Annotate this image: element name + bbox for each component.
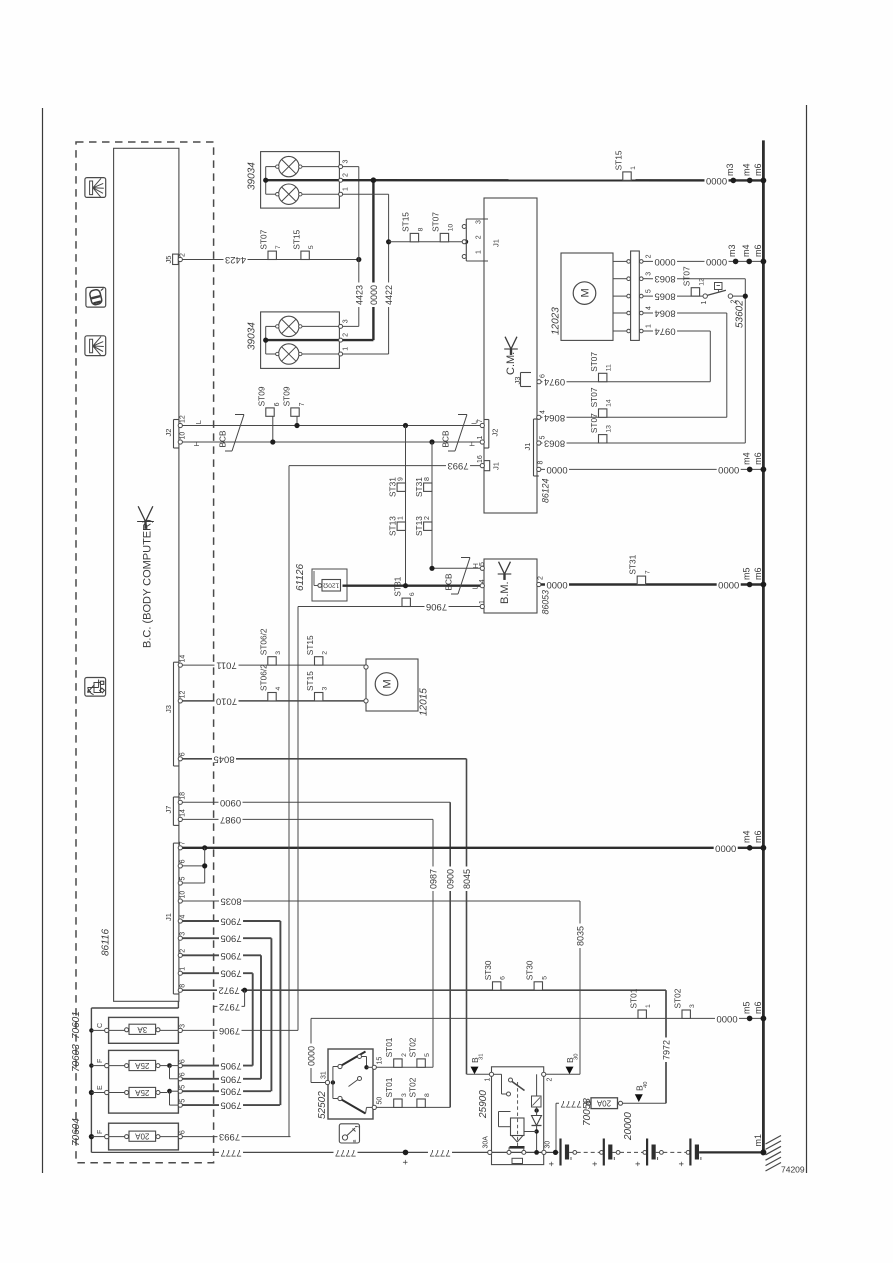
fusebox 70604: [109, 1123, 179, 1150]
pin 4 J1 C.M.: [537, 415, 541, 419]
svg-text:12: 12: [180, 415, 187, 423]
wire 0974 motor side: [649, 330, 711, 332]
svg-text:1: 1: [476, 250, 483, 254]
svg-text:B.C. (BODY COMPUTER): B.C. (BODY COMPUTER): [142, 519, 154, 648]
svg-text:14: 14: [606, 399, 613, 407]
pin 1 cluster b: [339, 352, 343, 356]
svg-text:8045: 8045: [213, 753, 234, 764]
wires 7905 J1/4..1: [182, 920, 280, 922]
svg-text:50: 50: [377, 1097, 384, 1105]
svg-text:F: F: [97, 1130, 104, 1134]
svg-text:70603: 70603: [71, 1044, 82, 1072]
icon low-beam 1: [85, 178, 106, 198]
pin 31 52502: [311, 1082, 326, 1084]
svg-text:61126: 61126: [295, 563, 306, 591]
pin 1 J1top: [462, 255, 466, 259]
svg-text:8: 8: [424, 477, 431, 481]
svg-text:3: 3: [646, 272, 653, 276]
svg-text:10: 10: [180, 432, 187, 440]
pin 5 J1: [178, 881, 182, 885]
svg-text:L: L: [194, 420, 203, 424]
pin 6 J3: [178, 757, 182, 761]
svg-text:0987: 0987: [429, 869, 439, 889]
ground m1: [760, 1149, 766, 1155]
svg-text:7905: 7905: [220, 968, 241, 979]
svg-text:13: 13: [606, 425, 613, 433]
svg-text:0000: 0000: [718, 579, 739, 590]
wire 0000 J1/7 ground: [182, 847, 763, 849]
ST09 pin6 tap: [266, 408, 274, 416]
wire 0987 switch side: [376, 1066, 433, 1068]
ST01 pin3: [394, 1099, 402, 1107]
svg-text:m4: m4: [741, 244, 751, 257]
svg-text:ST07: ST07: [589, 413, 599, 433]
icon telltale 2: [86, 287, 106, 307]
pin 6 70604: [178, 1135, 182, 1139]
svg-text:10: 10: [447, 224, 454, 232]
svg-text:+: +: [547, 1161, 557, 1166]
pin 5 B.M.: [480, 566, 484, 570]
pin 12015 a: [364, 665, 368, 669]
connector J5 (B.C.): [173, 254, 179, 264]
svg-text:1: 1: [398, 516, 405, 520]
svg-text:4: 4: [180, 915, 187, 919]
ground m6 lamps: [761, 178, 767, 184]
svg-text:6: 6: [180, 1059, 187, 1063]
pin 8 J1: [178, 988, 182, 992]
svg-text:ST07: ST07: [589, 387, 599, 407]
battery cell 1: [559, 1139, 561, 1166]
svg-text:16: 16: [477, 455, 484, 463]
svg-text:H: H: [192, 441, 201, 446]
svg-text:30A: 30A: [483, 1136, 490, 1149]
svg-text:5: 5: [479, 562, 486, 566]
ST31 pin6 on 7906: [402, 598, 410, 606]
ST07 pin7 on 4423: [268, 251, 276, 259]
svg-text:0000: 0000: [369, 285, 379, 305]
connector J7 (B.C.): [172, 797, 174, 825]
svg-text:7993: 7993: [219, 1131, 240, 1142]
svg-text:m6: m6: [753, 830, 763, 843]
svg-text:6: 6: [500, 976, 507, 980]
motor 12023 box: [561, 253, 613, 340]
svg-text:8: 8: [180, 984, 187, 988]
svg-text:2: 2: [476, 235, 483, 239]
svg-text:70601: 70601: [71, 1011, 82, 1039]
svg-text:39034: 39034: [247, 322, 258, 350]
wire 8064 vertical: [726, 313, 728, 417]
svg-text:86053: 86053: [541, 590, 551, 615]
wire 0974 CM side: [541, 381, 710, 383]
svg-text:ST09: ST09: [281, 386, 291, 406]
svg-text:m1: m1: [753, 1134, 763, 1147]
svg-text:ST13: ST13: [388, 516, 398, 536]
svg-text:L: L: [470, 420, 479, 424]
pin 1 relay: [489, 1072, 493, 1076]
svg-text:8063: 8063: [544, 438, 565, 449]
svg-text:0000: 0000: [706, 256, 727, 267]
pin 2 J5: [178, 257, 182, 261]
pin F 70604: [105, 1135, 109, 1139]
svg-text:J1: J1: [523, 443, 532, 451]
wire 4422: [343, 193, 389, 195]
svg-text:J1: J1: [492, 462, 501, 470]
pin 2 cluster b: [339, 338, 343, 342]
svg-text:7972: 7972: [219, 1001, 240, 1012]
lamp b1: [279, 316, 299, 336]
ST15 pin3 on 7010: [315, 693, 323, 701]
fuse 70058 20A: [619, 1101, 623, 1105]
ST31 pin8: [424, 483, 432, 491]
junction 4423/vertical: [356, 257, 361, 262]
motor connector strip: [631, 251, 640, 340]
fusebox 70603: [109, 1050, 179, 1113]
wire 8063 vertical: [744, 279, 746, 443]
svg-text:m5: m5: [741, 567, 751, 580]
ground m3 motor: [733, 259, 739, 265]
svg-text:B.M.: B.M.: [499, 581, 511, 604]
svg-text:5: 5: [646, 289, 653, 293]
svg-text:+: +: [401, 1159, 412, 1165]
battery cell 2: [603, 1139, 605, 1166]
wire 4423 vertical: [343, 166, 359, 168]
wire 7010 J3/12: [182, 700, 366, 702]
svg-text:H: H: [468, 441, 477, 446]
connector J2 (C.M.): [488, 420, 490, 449]
svg-text:1: 1: [343, 347, 350, 351]
wire B31 to relay pin1: [467, 1073, 492, 1075]
wire 7777 fuse side: [556, 1102, 587, 1104]
ST15 pin8 on 4422: [410, 233, 418, 241]
wire 7993: [289, 465, 480, 467]
pin 2 J1: [178, 953, 182, 957]
svg-text:2: 2: [424, 516, 431, 520]
svg-text:ST02: ST02: [407, 1077, 417, 1097]
svg-text:0000: 0000: [716, 1013, 737, 1024]
wire 4423 J5/2: [182, 259, 358, 261]
svg-text:ST09: ST09: [256, 386, 266, 406]
wire 7972 J1/8: [182, 989, 666, 991]
wire BCB L to B.M.: [343, 585, 483, 587]
svg-text:18: 18: [180, 792, 187, 800]
svg-text:2: 2: [322, 651, 329, 655]
svg-text:3: 3: [343, 319, 350, 323]
pin F 70603a: [105, 1064, 109, 1068]
lamp b2: [279, 344, 299, 364]
svg-text:12023: 12023: [551, 307, 562, 335]
svg-text:m3: m3: [725, 163, 735, 176]
svg-text:m4: m4: [741, 452, 751, 465]
pin 10 J1: [178, 899, 182, 903]
pin 14 J7: [178, 817, 182, 821]
wire 8065 motor side: [649, 295, 704, 297]
junction 4422 branch: [386, 239, 391, 244]
wire 8064 motor side: [649, 312, 727, 314]
svg-text:2: 2: [180, 253, 187, 257]
svg-text:8: 8: [538, 461, 545, 465]
fuse 20A: [129, 1131, 156, 1141]
svg-text:12: 12: [180, 691, 187, 699]
ST13 pin1: [397, 522, 405, 530]
svg-text:ST30: ST30: [525, 960, 535, 980]
svg-text:m6: m6: [753, 163, 763, 176]
ground m6 C.M.: [761, 467, 767, 473]
wire BCB H to B.M.: [432, 567, 480, 569]
svg-text:3: 3: [180, 1024, 187, 1028]
svg-text:3: 3: [689, 1004, 696, 1008]
svg-text:70604: 70604: [71, 1118, 82, 1146]
cluster a internal wires: [266, 166, 276, 168]
pin 2 B.M.: [537, 582, 541, 586]
wire 8064 CM side: [541, 416, 727, 418]
svg-text:7906: 7906: [219, 1025, 240, 1036]
svg-text:4423: 4423: [354, 285, 364, 305]
svg-text:m3: m3: [727, 244, 737, 257]
ST07 pin12 on 8065: [691, 288, 699, 296]
pin 30A relay: [488, 1150, 492, 1154]
svg-text:15: 15: [377, 1057, 384, 1065]
svg-text:0000: 0000: [654, 256, 675, 267]
svg-text:86116: 86116: [101, 928, 112, 956]
svg-text:J1: J1: [492, 239, 501, 247]
key icon 52502: [339, 1124, 359, 1143]
ST15 pin2 on 7011: [315, 657, 323, 665]
svg-text:30: 30: [545, 1141, 552, 1149]
pin 10 J2: [178, 440, 182, 444]
svg-text:8063: 8063: [654, 273, 675, 284]
wire 0000 B.M. ground: [541, 583, 763, 585]
svg-text:86124: 86124: [541, 478, 551, 503]
wire 8035 J1/10: [182, 900, 580, 902]
pin 4 B.M.: [480, 584, 484, 588]
svg-text:2: 2: [343, 173, 350, 177]
chassis ground hatch: [766, 1136, 782, 1145]
ground m4 lamps: [747, 178, 753, 184]
svg-text:ST02: ST02: [407, 1037, 417, 1057]
rail through relay: [546, 1151, 559, 1153]
svg-text:0987: 0987: [220, 814, 241, 825]
ground m6 52502: [761, 1016, 767, 1022]
svg-text:ST01: ST01: [384, 1037, 394, 1057]
pin 3 J1top: [462, 225, 466, 229]
pin 3 cluster b: [339, 324, 343, 328]
svg-text:+: +: [633, 1161, 643, 1166]
ST07 pin13 on 8063: [599, 435, 607, 443]
svg-text:0974: 0974: [654, 326, 675, 337]
pin 3 cluster a: [339, 165, 343, 169]
svg-text:1: 1: [630, 166, 637, 170]
pin 3 J1: [178, 936, 182, 940]
svg-text:M: M: [580, 288, 592, 297]
pin C 70601: [105, 1028, 109, 1032]
svg-text:J3: J3: [164, 705, 173, 713]
svg-text:C: C: [97, 1023, 104, 1028]
junction battery plus: [403, 1150, 409, 1156]
ST02 pin5: [417, 1059, 425, 1067]
pin 6b 70603: [178, 1077, 182, 1081]
svg-text:m4: m4: [741, 163, 751, 176]
svg-text:7011: 7011: [216, 660, 236, 671]
verticals 7905: [279, 921, 281, 1105]
svg-text:ST07: ST07: [259, 229, 269, 249]
svg-text:8064: 8064: [544, 412, 565, 423]
svg-text:5: 5: [424, 1053, 431, 1057]
wire 8045 J3/6: [182, 758, 466, 760]
svg-text:C.M.: C.M.: [505, 352, 517, 375]
svg-text:m6: m6: [753, 567, 763, 580]
wire 0000 C.M. ground: [541, 468, 763, 470]
svg-text:F: F: [97, 1059, 104, 1063]
BCB L vertical: [405, 426, 407, 586]
svg-text:J3: J3: [513, 377, 522, 385]
relay internal switch: [494, 1073, 502, 1075]
svg-text:ST01: ST01: [629, 988, 639, 1008]
svg-text:39034: 39034: [247, 162, 258, 190]
relay link dashed: [517, 1082, 519, 1146]
dots BCB L/H verticals: [403, 423, 408, 428]
B.C. 86116 dashed boundary: [76, 142, 214, 1163]
page border right: [806, 105, 808, 1173]
relay rail pins: [492, 1151, 544, 1153]
relay bottom resistor: [512, 1158, 523, 1163]
pin 6 J3 C.M.: [537, 380, 541, 384]
wire 7906 fuse side: [182, 1029, 298, 1031]
connector J3 (B.C.): [173, 662, 175, 766]
wires 7905 fuse side: [182, 1065, 252, 1067]
svg-text:0000: 0000: [306, 1046, 316, 1066]
svg-text:ST07: ST07: [589, 352, 599, 372]
wire 7777 ground rail: [91, 1151, 487, 1153]
motor pin 3: [613, 278, 627, 280]
ground point m4: [747, 845, 753, 851]
svg-text:4422: 4422: [384, 285, 394, 305]
svg-text:7: 7: [275, 245, 282, 249]
pin 6 J1: [178, 864, 182, 868]
ground m6 motor: [761, 259, 767, 265]
svg-text:8045: 8045: [462, 869, 472, 889]
svg-text:31: 31: [479, 1054, 485, 1060]
svg-text:14: 14: [180, 809, 187, 817]
page border left: [42, 108, 44, 1173]
svg-text:8: 8: [417, 227, 424, 231]
wire 0987 vertical: [432, 819, 434, 1067]
wire 0000 lamps ground: [343, 179, 764, 182]
svg-text:BCB: BCB: [218, 430, 228, 448]
svg-text:3: 3: [343, 160, 350, 164]
svg-text:7777: 7777: [429, 1147, 450, 1158]
relay 25900 box: [492, 1067, 544, 1165]
svg-text:5: 5: [180, 1085, 187, 1089]
lamp a2: [279, 184, 299, 204]
svg-text:0900: 0900: [220, 797, 241, 808]
fuse 3A: [129, 1024, 156, 1034]
pin 30 relay: [542, 1150, 546, 1154]
svg-text:ST06/2: ST06/2: [258, 664, 268, 691]
svg-text:3A: 3A: [137, 1025, 147, 1034]
lamp a1: [279, 156, 299, 176]
pin 5 J1 C.M.: [537, 441, 541, 445]
fuse 25A b: [129, 1087, 156, 1097]
svg-text:7906: 7906: [426, 601, 447, 612]
ground m6 B.M.: [761, 582, 767, 588]
svg-text:2: 2: [646, 254, 653, 258]
svg-text:1: 1: [485, 1078, 492, 1082]
svg-text:m5: m5: [741, 1001, 751, 1014]
svg-text:12015: 12015: [419, 688, 430, 716]
icon low-beam 3: [85, 336, 106, 356]
connector J1 bottom (C.M.): [533, 419, 535, 476]
ST31 pin9: [397, 483, 405, 491]
svg-text:ST31: ST31: [414, 477, 424, 497]
B.C. 86116 solid box: [114, 148, 179, 1001]
wire 7906 B.M.: [298, 606, 480, 608]
pin 6 70603a: [178, 1064, 182, 1068]
motor pin 4: [613, 312, 627, 314]
pin 2 relay: [542, 1072, 546, 1076]
svg-text:4: 4: [275, 687, 282, 691]
switch 52502 box: [328, 1049, 373, 1119]
svg-text:ST01: ST01: [384, 1077, 394, 1097]
battery cell 4: [689, 1139, 691, 1166]
BCB H vertical: [431, 442, 433, 568]
ST06/2 pin4 on 7010: [268, 693, 276, 701]
svg-text:m6: m6: [753, 1001, 763, 1014]
resistor 120 ohm: [322, 580, 341, 592]
wire 0900 switch side: [376, 1106, 450, 1108]
svg-text:6: 6: [180, 859, 187, 863]
pin 2 J1top: [462, 240, 466, 244]
connector J1 (B.C.): [172, 843, 174, 994]
svg-text:7010: 7010: [216, 695, 237, 706]
svg-text:7972: 7972: [662, 1040, 672, 1060]
connector J2 (B.C.): [173, 420, 175, 449]
wire 7972 to fuse: [623, 1102, 667, 1104]
svg-text:1: 1: [701, 301, 708, 305]
svg-text:J2: J2: [491, 429, 500, 437]
arrow B40: [635, 1094, 643, 1102]
ground m5 B.M.: [747, 582, 753, 588]
wire 8063 CM side: [541, 442, 745, 444]
svg-text:7: 7: [180, 841, 187, 845]
pin 1 cluster a: [339, 192, 343, 196]
svg-text:6: 6: [274, 402, 281, 406]
svg-text:ST07: ST07: [431, 212, 441, 232]
svg-text:7905: 7905: [220, 950, 241, 961]
pin 5b 70603: [178, 1103, 182, 1107]
relay PTC: [532, 1096, 542, 1107]
svg-text:11: 11: [606, 364, 613, 371]
wire BCB L (J2/12): [182, 425, 482, 427]
wire 7993 vertical: [288, 466, 290, 1137]
pin 12 J3: [178, 699, 182, 703]
svg-text:20000: 20000: [623, 1112, 634, 1141]
svg-text:m6: m6: [753, 452, 763, 465]
ST01 pin1 on 0000: [638, 1010, 646, 1018]
svg-text:120Ω: 120Ω: [323, 582, 339, 589]
ST06/2 pin3 on 7011: [268, 657, 276, 665]
junction 8063/53602: [743, 294, 748, 299]
pin 18 J7: [178, 800, 182, 804]
svg-text:25A: 25A: [135, 1088, 150, 1097]
pin 1 J1: [178, 971, 182, 975]
svg-text:2: 2: [547, 1078, 554, 1082]
svg-text:m6: m6: [753, 244, 763, 257]
svg-text:8035: 8035: [220, 896, 241, 907]
fuse feed wire: [177, 1001, 179, 1008]
52502 internals: [331, 1080, 335, 1084]
pin 3 70601: [178, 1028, 182, 1032]
svg-text:31: 31: [321, 1071, 328, 1079]
